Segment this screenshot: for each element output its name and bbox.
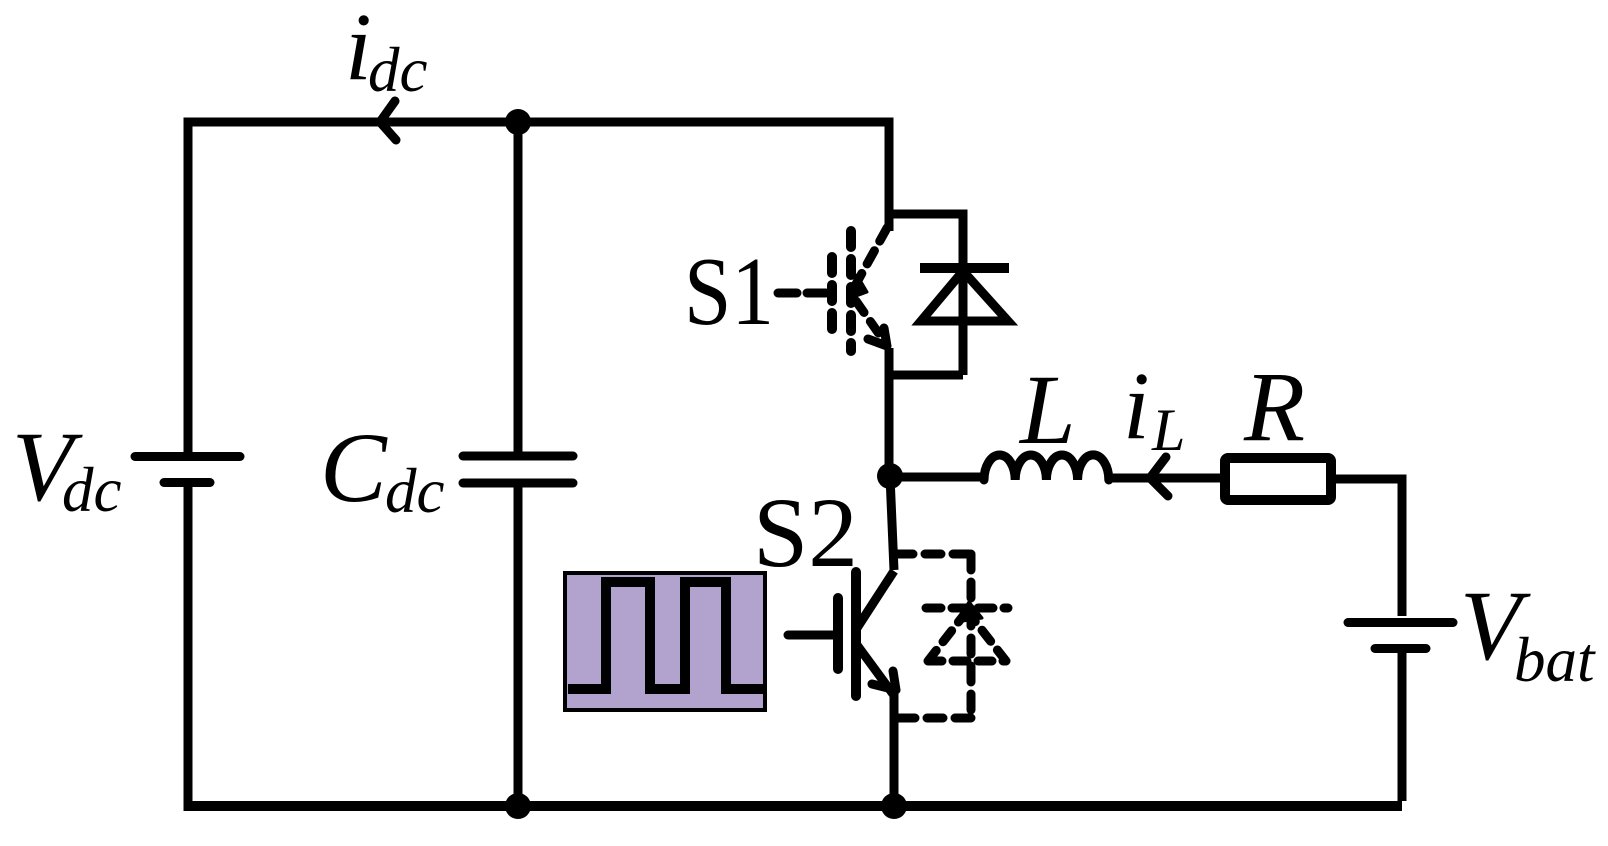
diode D2 (dashed) top lead	[897, 550, 971, 559]
transistor S2 collector diagonal	[857, 571, 894, 628]
svg-text:L: L	[1018, 354, 1076, 465]
wire left vertical upper	[184, 118, 193, 453]
transistor S1 collector diagonal	[856, 228, 887, 284]
inductor L	[984, 455, 1109, 480]
svg-text:S2: S2	[753, 477, 858, 588]
capacitor Cdc top plate	[463, 452, 573, 461]
diode D2 bottom lead	[897, 714, 971, 723]
arrow iL	[1150, 457, 1168, 496]
wire left vertical lower	[184, 487, 193, 811]
transistor S2 emitter diagonal	[857, 645, 893, 694]
battery Vbat short plate	[1375, 644, 1426, 653]
wire right vertical upper	[1398, 475, 1407, 617]
node junction midpoint	[877, 463, 903, 489]
node junction top (Cdc tap)	[505, 109, 531, 135]
svg-text:dc: dc	[62, 455, 122, 525]
svg-text:dc: dc	[368, 35, 428, 105]
wire bottom bus	[184, 801, 1403, 811]
wire inductor to resistor	[1109, 474, 1220, 483]
wire Cdc upper	[514, 122, 523, 452]
wire midpoint to inductor	[890, 473, 986, 482]
transistor S1 inner arrowhead	[848, 275, 867, 299]
svg-text:C: C	[320, 412, 388, 523]
diode D1 triangle	[921, 271, 1008, 321]
transistor S1 emitter diagonal	[856, 301, 884, 341]
diode D1 branch bottom wire	[889, 371, 963, 380]
transistor S2 gate lead	[788, 631, 838, 640]
svg-text:R: R	[1243, 351, 1305, 462]
arrow i_dc on top wire	[380, 101, 396, 140]
PWM gate drive box	[565, 573, 765, 710]
diode D1 branch top wire	[889, 210, 963, 219]
transistor S2 gate bar	[833, 598, 843, 669]
diode D2 arrowhead	[956, 602, 982, 622]
battery Vbat long plate	[1348, 618, 1453, 627]
transistor S2 body bar	[851, 572, 861, 696]
transistor S1 (dashed IGBT) gate lead	[778, 289, 830, 298]
transistor S1 body bar	[846, 231, 856, 351]
diode D1 vertical wire	[959, 210, 968, 376]
wire top bus	[188, 118, 889, 127]
svg-text:bat: bat	[1514, 625, 1596, 695]
svg-text:dc: dc	[385, 456, 445, 526]
wire S1 collector stub	[885, 118, 894, 232]
diode D2 triangle	[928, 611, 1006, 661]
resistor R	[1225, 458, 1331, 500]
battery Vdc short plate	[164, 478, 210, 487]
transistor S1 gate bar	[827, 257, 837, 329]
wire S2 emitter stub	[890, 694, 899, 806]
PWM square wave	[568, 582, 766, 689]
transistor S1 emitter arrowhead	[868, 328, 887, 346]
svg-text:i: i	[1123, 352, 1150, 459]
battery Vdc long plate	[135, 452, 240, 461]
transistor S2 emitter arrowhead	[872, 671, 896, 690]
wire right vertical lower	[1398, 649, 1407, 801]
svg-text:S1: S1	[684, 238, 774, 345]
diode D1 cathode bar	[920, 263, 1009, 273]
node junction bottom right	[881, 793, 907, 819]
wire S2 collector stub	[890, 476, 894, 570]
diode D2 right vertical	[967, 554, 976, 718]
node junction bottom left (Cdc tap)	[505, 793, 531, 819]
wire resistor to corner	[1331, 475, 1402, 484]
wire S1 emitter stub	[885, 348, 894, 476]
diode D2 cathode bar	[926, 604, 1008, 613]
wire Cdc lower	[514, 487, 523, 806]
capacitor Cdc bottom plate	[463, 479, 573, 488]
